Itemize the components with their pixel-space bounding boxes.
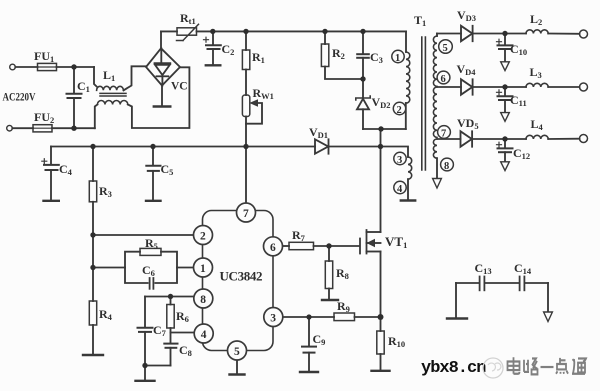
svg-text:C5: C5	[161, 162, 174, 177]
svg-text:VC: VC	[171, 81, 188, 93]
svg-text:R1: R1	[252, 50, 265, 65]
svg-text:L4: L4	[531, 117, 544, 132]
svg-text:1: 1	[395, 53, 400, 64]
svg-text:T1: T1	[414, 13, 426, 28]
svg-text:RW1: RW1	[253, 86, 274, 101]
svg-text:7: 7	[243, 208, 249, 220]
svg-text:C4: C4	[59, 162, 73, 177]
svg-text:C9: C9	[313, 332, 326, 347]
svg-text:R9: R9	[337, 299, 350, 314]
svg-text:4: 4	[397, 184, 403, 195]
svg-text:R6: R6	[176, 309, 189, 324]
svg-text:VD2: VD2	[372, 95, 391, 110]
svg-text:R8: R8	[336, 266, 349, 281]
svg-text:R7: R7	[292, 228, 306, 243]
svg-text:L3: L3	[530, 65, 542, 80]
svg-text:8: 8	[444, 161, 449, 172]
svg-text:UC3842: UC3842	[220, 269, 263, 284]
svg-text:VT1: VT1	[385, 234, 407, 250]
svg-text:R3: R3	[99, 184, 112, 199]
svg-text:C6: C6	[142, 263, 155, 278]
svg-text:VD1: VD1	[309, 125, 328, 140]
svg-text:VD5: VD5	[457, 116, 479, 131]
svg-text:8: 8	[200, 294, 206, 306]
svg-text:FU2: FU2	[34, 110, 54, 125]
svg-text:C11: C11	[510, 93, 527, 108]
svg-text:ybx8.cn: ybx8.cn	[421, 359, 486, 378]
svg-text:4: 4	[201, 329, 207, 341]
svg-text:Rt1: Rt1	[180, 11, 196, 26]
svg-text:R2: R2	[332, 46, 345, 61]
svg-text:1: 1	[200, 263, 206, 275]
svg-text:C13: C13	[475, 261, 492, 276]
svg-text:C3: C3	[370, 50, 383, 65]
svg-text:3: 3	[397, 155, 402, 166]
svg-text:C7: C7	[153, 323, 167, 338]
svg-text:FU1: FU1	[34, 49, 54, 64]
svg-text:VD3: VD3	[457, 8, 476, 23]
svg-text:C2: C2	[222, 42, 235, 57]
svg-text:L2: L2	[530, 12, 542, 27]
svg-text:C8: C8	[179, 343, 192, 358]
svg-text:2: 2	[200, 231, 206, 243]
svg-text:C10: C10	[510, 42, 527, 57]
svg-text:VD4: VD4	[457, 62, 477, 77]
svg-text:7: 7	[441, 129, 446, 140]
svg-text:3: 3	[270, 313, 276, 325]
svg-text:R5: R5	[145, 236, 158, 251]
svg-text:C14: C14	[514, 261, 532, 276]
svg-text:R4: R4	[99, 307, 113, 322]
svg-text:C1: C1	[77, 79, 90, 94]
svg-text:R10: R10	[388, 334, 405, 349]
svg-text:L1: L1	[103, 68, 115, 83]
svg-text:6: 6	[270, 242, 276, 254]
svg-text:2: 2	[397, 105, 402, 116]
svg-text:AC220V: AC220V	[3, 90, 36, 104]
svg-text:5: 5	[443, 43, 448, 54]
svg-text:6: 6	[441, 74, 446, 85]
svg-text:C12: C12	[513, 146, 530, 161]
svg-text:5: 5	[234, 346, 240, 358]
